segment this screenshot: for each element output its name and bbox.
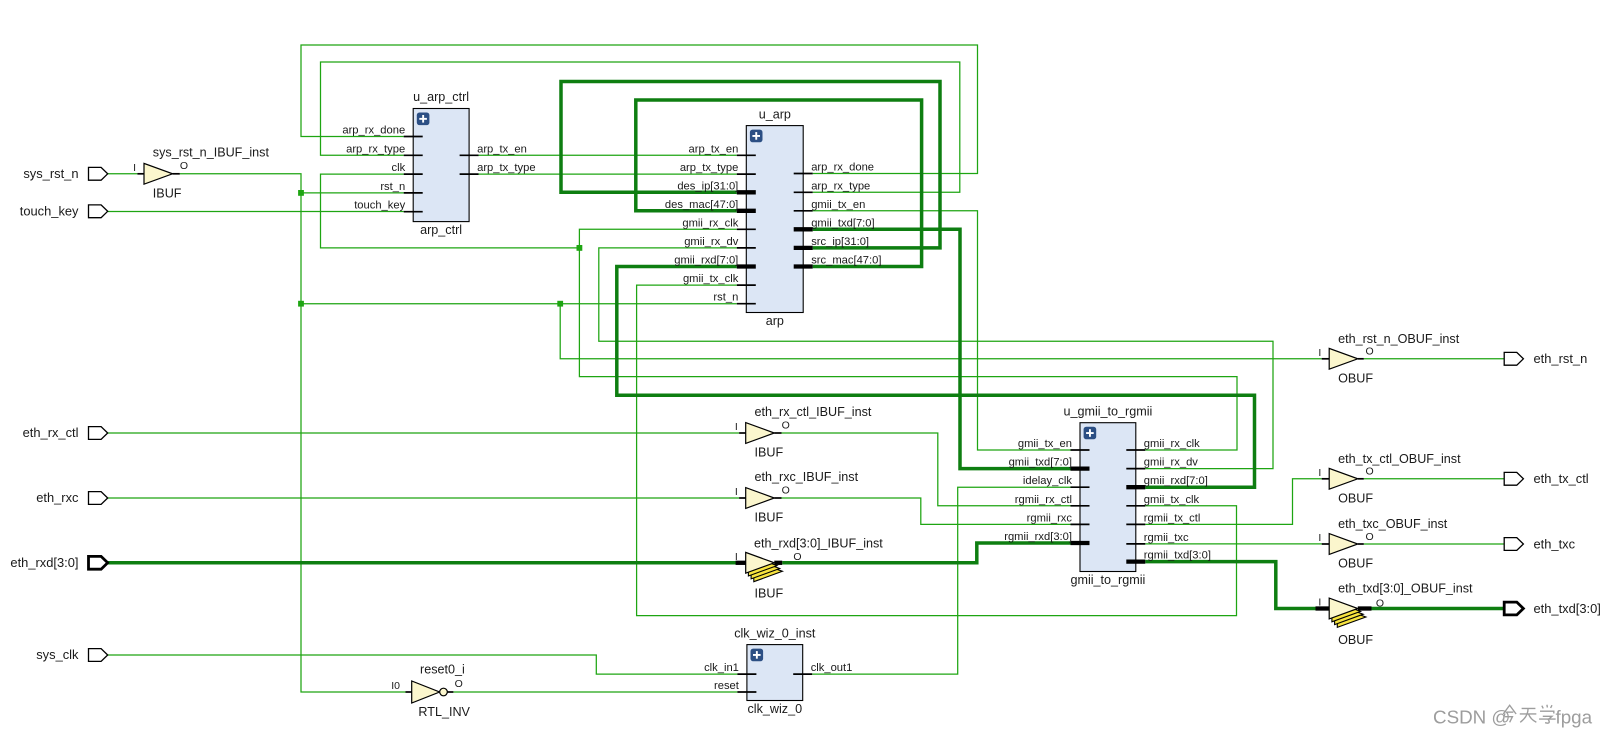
wire net gmii_rx_dv: [599, 248, 1273, 469]
svg-text:src_ip[31:0]: src_ip[31:0]: [811, 236, 869, 248]
svg-text:clk_wiz_0: clk_wiz_0: [748, 702, 803, 716]
svg-text:O: O: [1366, 531, 1374, 543]
input port touch_key: [20, 204, 108, 219]
svg-text:des_mac[47:0]: des_mac[47:0]: [665, 199, 738, 211]
buffer sys_rst_n_IBUF_inst (IBUF): [133, 146, 269, 201]
wire sys_clk port to clk_wiz clk_in1: [108, 655, 738, 674]
svg-text:eth_rx_ctl_IBUF_inst: eth_rx_ctl_IBUF_inst: [755, 405, 872, 419]
svg-text:eth_txd[3:0]_OBUF_inst: eth_txd[3:0]_OBUF_inst: [1338, 582, 1473, 596]
wire net rgmii_txc to OBUF: [1145, 543, 1321, 545]
svg-text:O: O: [782, 419, 790, 431]
wire net sys_rst_n_IBUF branch to eth_rst_n OBUF: [560, 304, 1321, 359]
svg-text:OBUF: OBUF: [1338, 371, 1373, 385]
svg-text:eth_tx_ctl: eth_tx_ctl: [1534, 471, 1589, 486]
svg-text:idelay_clk: idelay_clk: [1023, 475, 1073, 487]
svg-text:touch_key: touch_key: [20, 204, 79, 219]
wire net gmii_tx_clk: [637, 285, 1237, 615]
svg-text:O: O: [455, 678, 463, 690]
junction sys_rst_n_IBUF / u_arp rst_n: [298, 301, 304, 307]
wire net eth_rxc_IBUF to rgmii_rxc: [782, 498, 1071, 524]
module clk_wiz_0_inst (clk_wiz_0): [704, 626, 852, 716]
svg-text:arp_tx_type: arp_tx_type: [680, 162, 738, 174]
svg-text:I: I: [1318, 597, 1321, 609]
buffer eth_tx_ctl_OBUF_inst (OBUF): [1318, 452, 1461, 506]
wire net arp_tx_type: [479, 173, 737, 175]
svg-text:gmii_tx_clk: gmii_tx_clk: [1144, 494, 1200, 506]
svg-text:arp_tx_en: arp_tx_en: [477, 143, 527, 155]
bus net src_mac to des_mac: [636, 100, 922, 267]
svg-text:rgmii_rxc: rgmii_rxc: [1027, 512, 1073, 524]
svg-text:clk_out1: clk_out1: [811, 662, 853, 674]
svg-text:u_arp_ctrl: u_arp_ctrl: [413, 90, 469, 104]
svg-text:gmii_rx_dv: gmii_rx_dv: [1144, 457, 1198, 469]
svg-text:gmii_rx_clk: gmii_rx_clk: [1144, 438, 1200, 450]
output port eth_txd[3:0]: [1504, 601, 1601, 616]
svg-text:eth_tx_ctl_OBUF_inst: eth_tx_ctl_OBUF_inst: [1338, 452, 1461, 466]
wire net eth_rx_ctl_IBUF to rgmii_rx_ctl: [782, 433, 1071, 506]
svg-text:rst_n: rst_n: [380, 181, 405, 193]
svg-text:u_gmii_to_rgmii: u_gmii_to_rgmii: [1063, 404, 1152, 418]
svg-text:eth_rst_n: eth_rst_n: [1534, 351, 1588, 366]
module u_arp (arp): [665, 107, 882, 327]
svg-text:rgmii_txc: rgmii_txc: [1144, 532, 1189, 544]
svg-text:touch_key: touch_key: [354, 200, 405, 212]
svg-text:sys_clk: sys_clk: [36, 647, 79, 662]
junction sys_rst_n_IBUF / eth_rst_n branch: [557, 301, 563, 307]
svg-text:I: I: [133, 162, 136, 174]
svg-text:arp_ctrl: arp_ctrl: [420, 223, 462, 237]
svg-text:gmii_rx_clk: gmii_rx_clk: [682, 217, 738, 229]
svg-text:I: I: [735, 486, 738, 498]
svg-text:rgmii_rx_ctl: rgmii_rx_ctl: [1015, 494, 1072, 506]
svg-text:gmii_tx_en: gmii_tx_en: [811, 199, 865, 211]
svg-text:IBUF: IBUF: [755, 511, 784, 525]
wire net sys_rst_n_IBUF trunk: [180, 174, 406, 692]
svg-text:eth_rxd[3:0]: eth_rxd[3:0]: [10, 555, 78, 570]
svg-text:eth_rxc: eth_rxc: [36, 490, 79, 505]
svg-text:src_mac[47:0]: src_mac[47:0]: [811, 255, 881, 267]
wire net clk_out1 to idelay_clk: [812, 487, 1070, 674]
input port eth_rxc: [36, 490, 107, 505]
svg-text:sys_rst_n: sys_rst_n: [23, 166, 78, 181]
output port eth_txc: [1504, 536, 1575, 551]
svg-text:gmii_rxd[7:0]: gmii_rxd[7:0]: [674, 255, 738, 267]
svg-text:arp_rx_type: arp_rx_type: [811, 180, 870, 192]
svg-text:rst_n: rst_n: [713, 292, 738, 304]
svg-text:gmii_tx_clk: gmii_tx_clk: [683, 273, 739, 285]
svg-text:O: O: [1366, 346, 1374, 358]
svg-text:O: O: [782, 484, 790, 496]
bus net gmii_txd: [813, 229, 1071, 468]
svg-text:arp_tx_type: arp_tx_type: [477, 162, 535, 174]
svg-text:IBUF: IBUF: [755, 446, 784, 460]
wire net gmii_rx_clk: [579, 229, 1237, 450]
svg-text:eth_txc_OBUF_inst: eth_txc_OBUF_inst: [1338, 517, 1448, 531]
svg-text:arp: arp: [766, 314, 784, 328]
svg-text:eth_txc: eth_txc: [1534, 536, 1576, 551]
svg-text:eth_rxd[3:0]_IBUF_inst: eth_rxd[3:0]_IBUF_inst: [754, 537, 883, 551]
svg-text:eth_rst_n_OBUF_inst: eth_rst_n_OBUF_inst: [1338, 332, 1460, 346]
svg-text:des_ip[31:0]: des_ip[31:0]: [677, 180, 738, 192]
svg-text:gmii_rxd[7:0]: gmii_rxd[7:0]: [1144, 475, 1208, 487]
bus net eth_rxd_IBUF to rgmii_rxd: [782, 543, 1070, 563]
svg-text:O: O: [1366, 466, 1374, 478]
svg-text:O: O: [793, 551, 801, 563]
svg-text:arp_rx_done: arp_rx_done: [342, 125, 405, 137]
svg-text:arp_rx_type: arp_rx_type: [346, 143, 405, 155]
wire net sys_rst_n_IBUF branch to arp_ctrl rst_n: [301, 192, 404, 194]
bus eth_rxd port to IBUF: [108, 561, 739, 565]
wire net reset0_i to clk_wiz reset: [453, 691, 737, 693]
svg-text:clk_wiz_0_inst: clk_wiz_0_inst: [734, 626, 816, 640]
svg-text:arp_tx_en: arp_tx_en: [689, 143, 739, 155]
wire eth_rxc port to IBUF: [108, 497, 739, 499]
svg-text:O: O: [180, 160, 188, 172]
wire net eth_txc OBUF to port: [1364, 543, 1504, 545]
buffer eth_rxd[3:0]_IBUF_inst (IBUF multi-bit): [735, 537, 883, 601]
svg-text:OBUF: OBUF: [1338, 633, 1373, 647]
wire net gmii_tx_en: [813, 211, 1071, 450]
svg-text:eth_rx_ctl: eth_rx_ctl: [23, 425, 79, 440]
svg-text:gmii_tx_en: gmii_tx_en: [1018, 438, 1072, 450]
junction gmii_rx_clk / arp_ctrl clk branch: [577, 245, 583, 251]
input port sys_clk: [36, 647, 107, 662]
wire net arp_rx_type: [321, 62, 960, 192]
svg-text:eth_txd[3:0]: eth_txd[3:0]: [1534, 601, 1601, 616]
watermark CSDN: [1433, 705, 1594, 729]
svg-text:sys_rst_n_IBUF_inst: sys_rst_n_IBUF_inst: [153, 146, 270, 160]
bus net rgmii_txd to OBUF: [1145, 562, 1315, 609]
wire touch_key port to arp_ctrl: [108, 211, 404, 213]
svg-text:u_arp: u_arp: [759, 107, 791, 121]
svg-text:gmii_rx_dv: gmii_rx_dv: [684, 236, 738, 248]
svg-text:CSDN @: CSDN @: [1433, 707, 1511, 728]
buffer eth_txc_OBUF_inst (OBUF): [1318, 517, 1447, 571]
buffer eth_txd[3:0]_OBUF_inst (OBUF multi-bit): [1316, 582, 1474, 648]
output port eth_rst_n: [1504, 351, 1587, 366]
buffer eth_rst_n_OBUF_inst (OBUF): [1318, 332, 1459, 386]
inverter reset0_i (RTL_INV): [391, 663, 470, 719]
input port eth_rxd[3:0]: [10, 555, 107, 570]
svg-text:I: I: [1318, 532, 1321, 544]
svg-text:I0: I0: [391, 680, 400, 692]
input port sys_rst_n: [23, 166, 107, 181]
output port eth_tx_ctl: [1504, 471, 1588, 486]
svg-text:I: I: [1318, 347, 1321, 359]
module u_gmii_to_rgmii (gmii_to_rgmii): [1004, 404, 1211, 586]
wire net sys_rst_n_IBUF branch to u_arp rst_n: [301, 303, 737, 305]
input port eth_rx_ctl: [23, 425, 108, 440]
wire sys_rst_n port to IBUF: [108, 173, 137, 175]
wire net rgmii_tx_ctl to OBUF: [1145, 479, 1321, 525]
bus net gmii_rxd: [617, 267, 1255, 488]
svg-text:arp_rx_done: arp_rx_done: [811, 162, 874, 174]
svg-text:fpga: fpga: [1556, 707, 1593, 728]
bus net eth_txd OBUF to port: [1372, 607, 1505, 611]
wire net eth_rst_n OBUF to port: [1364, 358, 1504, 360]
svg-text:reset0_i: reset0_i: [420, 663, 465, 677]
svg-text:RTL_INV: RTL_INV: [418, 705, 470, 719]
wire net eth_tx_ctl OBUF to port: [1364, 478, 1504, 480]
svg-text:reset: reset: [714, 680, 740, 692]
svg-text:I: I: [735, 551, 738, 563]
svg-text:gmii_txd[7:0]: gmii_txd[7:0]: [1009, 457, 1072, 469]
wire net gmii_rx_clk branch to arp_ctrl clk: [321, 174, 580, 248]
svg-text:OBUF: OBUF: [1338, 557, 1373, 571]
svg-text:I: I: [1318, 467, 1321, 479]
svg-text:IBUF: IBUF: [153, 186, 182, 200]
svg-text:rgmii_tx_ctl: rgmii_tx_ctl: [1144, 512, 1201, 524]
buffer eth_rx_ctl_IBUF_inst (IBUF): [735, 405, 872, 460]
svg-text:rgmii_txd[3:0]: rgmii_txd[3:0]: [1144, 550, 1211, 562]
svg-text:gmii_txd[7:0]: gmii_txd[7:0]: [811, 217, 874, 229]
svg-text:clk_in1: clk_in1: [704, 662, 739, 674]
svg-text:eth_rxc_IBUF_inst: eth_rxc_IBUF_inst: [755, 470, 859, 484]
wire net arp_rx_done: [301, 45, 978, 174]
svg-text:clk: clk: [392, 162, 406, 174]
svg-text:rgmii_rxd[3:0]: rgmii_rxd[3:0]: [1004, 531, 1072, 543]
junction sys_rst_n_IBUF / arp_ctrl rst_n: [298, 190, 304, 196]
module u_arp_ctrl (arp_ctrl): [342, 90, 535, 237]
buffer eth_rxc_IBUF_inst (IBUF): [735, 470, 859, 525]
wire net arp_tx_en: [479, 154, 737, 156]
svg-text:O: O: [1376, 598, 1384, 610]
wire eth_rx_ctl port to IBUF: [108, 432, 739, 434]
bus net src_ip to des_ip: [561, 82, 940, 248]
svg-text:gmii_to_rgmii: gmii_to_rgmii: [1070, 573, 1145, 587]
svg-text:OBUF: OBUF: [1338, 491, 1373, 505]
svg-text:I: I: [735, 421, 738, 433]
svg-text:IBUF: IBUF: [755, 587, 784, 601]
